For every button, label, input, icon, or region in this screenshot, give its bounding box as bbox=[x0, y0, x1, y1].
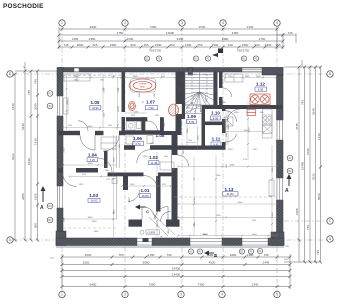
svg-text:1365: 1365 bbox=[72, 37, 79, 41]
svg-text:745: 745 bbox=[316, 250, 320, 255]
svg-text:A: A bbox=[285, 188, 289, 194]
svg-text:1000: 1000 bbox=[204, 70, 210, 72]
svg-text:9122: 9122 bbox=[312, 173, 316, 180]
svg-text:125: 125 bbox=[243, 159, 247, 161]
svg-text:1200: 1200 bbox=[157, 222, 159, 228]
svg-text:2: 2 bbox=[124, 293, 126, 297]
svg-text:7500: 7500 bbox=[212, 43, 219, 47]
svg-text:800: 800 bbox=[105, 170, 109, 172]
svg-text:4790: 4790 bbox=[194, 197, 196, 203]
svg-text:2530: 2530 bbox=[64, 147, 66, 153]
svg-text:3440: 3440 bbox=[74, 76, 80, 78]
svg-text:1430: 1430 bbox=[278, 159, 280, 165]
svg-text:3640: 3640 bbox=[312, 108, 316, 115]
svg-text:745: 745 bbox=[27, 90, 31, 95]
svg-text:900: 900 bbox=[226, 132, 228, 136]
svg-text:□: □ bbox=[142, 100, 144, 104]
svg-text:1200: 1200 bbox=[185, 43, 192, 47]
svg-text:2005: 2005 bbox=[118, 87, 120, 93]
svg-text:1925: 1925 bbox=[34, 193, 38, 200]
svg-text:750/1750: 750/1750 bbox=[237, 49, 250, 53]
svg-text:1240: 1240 bbox=[216, 215, 222, 217]
svg-text:1.07: 1.07 bbox=[146, 100, 155, 105]
svg-text:625: 625 bbox=[68, 125, 72, 127]
svg-text:E1: E1 bbox=[241, 250, 245, 253]
svg-text:900: 900 bbox=[130, 43, 135, 47]
svg-text:4,70: 4,70 bbox=[135, 142, 141, 146]
svg-text:1: 1 bbox=[61, 293, 63, 297]
svg-text:450: 450 bbox=[253, 149, 257, 151]
svg-text:10450: 10450 bbox=[301, 161, 305, 170]
svg-text:1500: 1500 bbox=[242, 43, 249, 47]
svg-text:1375: 1375 bbox=[79, 184, 85, 186]
svg-text:600: 600 bbox=[260, 112, 264, 114]
svg-text:4750: 4750 bbox=[117, 31, 124, 35]
svg-text:7,99: 7,99 bbox=[148, 106, 154, 110]
svg-text:3600: 3600 bbox=[77, 43, 84, 47]
svg-text:365: 365 bbox=[275, 43, 280, 47]
svg-text:240: 240 bbox=[227, 43, 232, 47]
svg-text:1.12: 1.12 bbox=[256, 82, 265, 87]
svg-text:1950: 1950 bbox=[110, 43, 117, 47]
svg-text:1570: 1570 bbox=[114, 157, 116, 163]
svg-text:460: 460 bbox=[144, 121, 148, 123]
svg-text:2130: 2130 bbox=[247, 25, 254, 29]
svg-text:210: 210 bbox=[50, 258, 54, 260]
svg-text:1300: 1300 bbox=[234, 112, 240, 114]
svg-text:750: 750 bbox=[188, 140, 192, 142]
svg-text:11,30: 11,30 bbox=[150, 161, 157, 165]
svg-text:745: 745 bbox=[263, 253, 268, 257]
svg-text:745: 745 bbox=[63, 43, 68, 47]
svg-text:2480: 2480 bbox=[222, 37, 229, 41]
svg-text:F1: F1 bbox=[207, 57, 210, 60]
svg-text:1500: 1500 bbox=[155, 43, 162, 47]
svg-text:4750: 4750 bbox=[259, 37, 266, 41]
svg-text:4350: 4350 bbox=[232, 31, 239, 35]
svg-text:4520: 4520 bbox=[209, 261, 216, 265]
svg-text:2460: 2460 bbox=[215, 87, 217, 93]
svg-text:F1: F1 bbox=[255, 57, 258, 60]
svg-text:900: 900 bbox=[34, 223, 38, 228]
svg-text:900: 900 bbox=[161, 76, 165, 78]
svg-text:5640: 5640 bbox=[238, 202, 244, 204]
svg-text:2150: 2150 bbox=[187, 128, 189, 134]
svg-text:5,09: 5,09 bbox=[189, 120, 195, 124]
svg-text:2330: 2330 bbox=[265, 43, 272, 47]
svg-text:1.01: 1.01 bbox=[141, 188, 150, 193]
svg-text:6150: 6150 bbox=[177, 37, 184, 41]
svg-text:6700: 6700 bbox=[306, 148, 310, 155]
svg-text:7260: 7260 bbox=[150, 25, 157, 29]
svg-text:745: 745 bbox=[301, 100, 305, 105]
svg-text:900: 900 bbox=[254, 43, 259, 47]
svg-text:1340: 1340 bbox=[252, 283, 259, 287]
svg-text:240: 240 bbox=[284, 259, 288, 261]
svg-text:4690: 4690 bbox=[67, 99, 69, 105]
svg-text:D1: D1 bbox=[194, 57, 198, 60]
svg-text:625: 625 bbox=[131, 115, 135, 117]
svg-text:41,84: 41,84 bbox=[227, 192, 234, 196]
svg-text:1.06: 1.06 bbox=[133, 136, 142, 141]
svg-text:67400: 67400 bbox=[172, 267, 181, 271]
svg-text:625: 625 bbox=[162, 184, 166, 186]
svg-text:6340: 6340 bbox=[21, 123, 25, 130]
svg-text:14400: 14400 bbox=[172, 273, 181, 277]
svg-text:+2,899: +2,899 bbox=[147, 231, 156, 235]
svg-text:1.05: 1.05 bbox=[91, 100, 100, 105]
svg-text:1790: 1790 bbox=[164, 122, 166, 128]
svg-text:740: 740 bbox=[166, 253, 171, 257]
svg-text:6,99: 6,99 bbox=[258, 88, 264, 92]
svg-text:3845: 3845 bbox=[64, 217, 66, 223]
svg-text:3640: 3640 bbox=[272, 167, 274, 173]
svg-text:1890: 1890 bbox=[245, 76, 251, 78]
svg-text:D1: D1 bbox=[288, 170, 292, 173]
svg-text:240: 240 bbox=[252, 220, 256, 222]
svg-text:1305: 1305 bbox=[256, 76, 262, 78]
svg-text:7060: 7060 bbox=[149, 283, 156, 287]
svg-text:1250: 1250 bbox=[228, 149, 234, 151]
svg-text:1.04: 1.04 bbox=[88, 153, 97, 158]
svg-text:P2: P2 bbox=[49, 92, 53, 95]
svg-text:2: 2 bbox=[22, 66, 26, 68]
svg-text:1000: 1000 bbox=[194, 70, 200, 72]
svg-text:14600: 14600 bbox=[166, 31, 175, 35]
svg-text:1430: 1430 bbox=[317, 133, 321, 140]
svg-text:5060: 5060 bbox=[143, 261, 150, 265]
svg-text:3845: 3845 bbox=[88, 217, 94, 219]
svg-text:B: B bbox=[213, 253, 218, 257]
svg-text:1.08: 1.08 bbox=[156, 133, 165, 138]
svg-text:1620: 1620 bbox=[83, 261, 90, 265]
svg-text:1.02: 1.02 bbox=[149, 155, 158, 160]
svg-text:4030: 4030 bbox=[85, 253, 92, 257]
svg-text:5480: 5480 bbox=[230, 164, 236, 166]
svg-text:5: 5 bbox=[276, 21, 278, 25]
svg-text:1100: 1100 bbox=[118, 107, 120, 112]
svg-text:3: 3 bbox=[181, 21, 183, 25]
svg-text:125: 125 bbox=[226, 163, 228, 167]
svg-text:745: 745 bbox=[306, 225, 310, 230]
svg-text:3440: 3440 bbox=[88, 126, 94, 128]
svg-text:455: 455 bbox=[108, 125, 112, 127]
svg-text:2140: 2140 bbox=[228, 76, 234, 78]
svg-text:745: 745 bbox=[34, 79, 38, 84]
svg-text:7300: 7300 bbox=[198, 283, 205, 287]
svg-text:775: 775 bbox=[106, 179, 110, 181]
svg-text:2005: 2005 bbox=[34, 103, 38, 110]
svg-text:2530: 2530 bbox=[104, 87, 106, 93]
svg-text:F1: F1 bbox=[158, 57, 161, 60]
svg-text:A: A bbox=[329, 237, 332, 241]
svg-text:16,86: 16,86 bbox=[142, 194, 149, 198]
svg-text:9122: 9122 bbox=[11, 153, 15, 160]
svg-text:1790: 1790 bbox=[198, 135, 200, 141]
svg-text:3255: 3255 bbox=[21, 193, 25, 200]
svg-text:1.11: 1.11 bbox=[212, 137, 221, 142]
svg-text:1.13: 1.13 bbox=[225, 187, 234, 192]
svg-text:2350: 2350 bbox=[216, 175, 222, 177]
svg-text:2150: 2150 bbox=[179, 87, 181, 93]
svg-text:745: 745 bbox=[287, 31, 292, 35]
svg-text:E1: E1 bbox=[146, 57, 150, 60]
svg-text:1445: 1445 bbox=[263, 261, 270, 265]
svg-text:1265: 1265 bbox=[134, 112, 140, 114]
svg-text:G1: G1 bbox=[189, 250, 193, 253]
svg-text:1.03: 1.03 bbox=[89, 193, 98, 198]
svg-text:625: 625 bbox=[92, 43, 97, 47]
svg-text:1625: 1625 bbox=[139, 92, 141, 98]
svg-text:5: 5 bbox=[276, 293, 278, 297]
svg-text:1300: 1300 bbox=[247, 106, 253, 108]
svg-text:2440: 2440 bbox=[74, 79, 80, 81]
svg-text:3280: 3280 bbox=[92, 221, 98, 223]
svg-text:7,35: 7,35 bbox=[90, 158, 96, 162]
svg-text:1000: 1000 bbox=[230, 253, 237, 257]
svg-text:2530: 2530 bbox=[127, 37, 134, 41]
svg-text:750/1750: 750/1750 bbox=[149, 49, 162, 53]
svg-text:240: 240 bbox=[111, 76, 115, 78]
svg-text:1100: 1100 bbox=[104, 112, 106, 117]
svg-text:E1: E1 bbox=[243, 57, 247, 60]
svg-text:625: 625 bbox=[82, 174, 86, 176]
svg-text:B: B bbox=[9, 72, 11, 76]
svg-text:P1: P1 bbox=[259, 250, 263, 253]
svg-text:745: 745 bbox=[285, 246, 289, 248]
svg-text:A1: A1 bbox=[199, 250, 203, 253]
svg-text:2105: 2105 bbox=[272, 212, 274, 218]
svg-text:16,02: 16,02 bbox=[91, 199, 98, 203]
svg-text:2940: 2940 bbox=[90, 25, 97, 29]
svg-text:2440: 2440 bbox=[11, 103, 15, 110]
svg-text:1480: 1480 bbox=[194, 222, 196, 228]
svg-text:2300: 2300 bbox=[157, 197, 159, 203]
svg-text:B2: B2 bbox=[49, 219, 53, 222]
svg-text:1450: 1450 bbox=[129, 197, 131, 203]
svg-text:1160: 1160 bbox=[130, 184, 135, 186]
svg-text:5060: 5060 bbox=[317, 193, 321, 200]
svg-text:4350: 4350 bbox=[89, 37, 96, 41]
svg-text:460: 460 bbox=[183, 149, 185, 153]
svg-text:42,99: 42,99 bbox=[92, 106, 99, 110]
svg-text:625: 625 bbox=[150, 143, 154, 145]
svg-text:POSCHODIE: POSCHODIE bbox=[3, 3, 44, 10]
svg-text:2480: 2480 bbox=[228, 124, 230, 130]
svg-text:2530: 2530 bbox=[249, 127, 251, 133]
svg-text:P3: P3 bbox=[49, 205, 53, 208]
svg-text:2440: 2440 bbox=[94, 231, 100, 233]
svg-text:6460: 6460 bbox=[90, 283, 97, 287]
svg-text:900: 900 bbox=[164, 156, 168, 158]
svg-text:A: A bbox=[9, 238, 12, 242]
svg-text:4: 4 bbox=[222, 21, 224, 25]
svg-text:6,41: 6,41 bbox=[213, 143, 219, 147]
svg-text:455: 455 bbox=[100, 79, 104, 81]
svg-text:1640: 1640 bbox=[88, 163, 94, 165]
svg-text:1700: 1700 bbox=[148, 253, 155, 257]
svg-text:VYMENA: VYMENA bbox=[139, 83, 147, 86]
svg-text:1.09: 1.09 bbox=[187, 114, 196, 119]
svg-text:1480: 1480 bbox=[60, 157, 62, 163]
svg-text:3845: 3845 bbox=[114, 209, 116, 215]
svg-text:900: 900 bbox=[155, 115, 159, 117]
svg-text:2: 2 bbox=[124, 21, 126, 25]
svg-text:1240: 1240 bbox=[143, 156, 149, 158]
svg-text:1500: 1500 bbox=[252, 234, 258, 236]
svg-text:750: 750 bbox=[118, 253, 123, 257]
svg-text:A1: A1 bbox=[289, 157, 293, 160]
svg-text:4: 4 bbox=[221, 293, 223, 297]
svg-text:1430: 1430 bbox=[34, 138, 38, 145]
svg-text:B: B bbox=[329, 72, 331, 76]
svg-text:2530: 2530 bbox=[199, 25, 206, 29]
svg-text:900: 900 bbox=[222, 102, 226, 104]
svg-text:750: 750 bbox=[197, 43, 202, 47]
svg-text:A: A bbox=[40, 205, 44, 211]
svg-text:6140: 6140 bbox=[27, 158, 31, 165]
svg-text:2105: 2105 bbox=[295, 208, 299, 215]
svg-text:455: 455 bbox=[143, 43, 148, 47]
svg-text:C: C bbox=[329, 219, 332, 223]
svg-text:3000: 3000 bbox=[203, 234, 209, 236]
svg-text:1890: 1890 bbox=[133, 76, 139, 78]
svg-text:450: 450 bbox=[169, 43, 174, 47]
svg-text:S0: S0 bbox=[49, 105, 53, 108]
svg-text:1: 1 bbox=[61, 21, 63, 25]
svg-text:3: 3 bbox=[180, 293, 182, 297]
svg-text:1.10: 1.10 bbox=[211, 111, 220, 116]
svg-text:VANE: VANE bbox=[140, 86, 146, 89]
svg-text:900: 900 bbox=[154, 92, 156, 96]
svg-text:C: C bbox=[146, 209, 149, 214]
svg-text:4745: 4745 bbox=[295, 123, 299, 130]
